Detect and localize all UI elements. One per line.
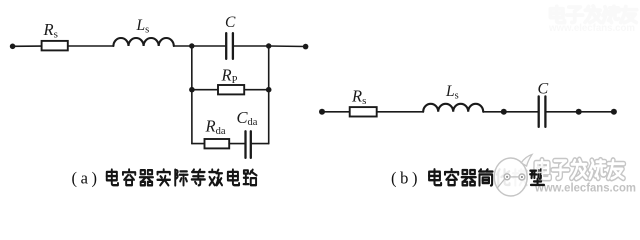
svg-text:www.elecfans.com: www.elecfans.com: [534, 181, 636, 195]
wire R_da to C_da: [229, 143, 244, 145]
junction dot node B2 (R_P row right): [266, 87, 272, 93]
svg-text:(a): (a): [72, 169, 101, 188]
wire R_s to L_s: [68, 45, 114, 47]
wire terminal to R_s: [13, 45, 42, 47]
wire terminal to R_s (b): [322, 111, 350, 113]
svg-text:Rs: Rs: [43, 20, 58, 40]
wire L_s to node A: [174, 45, 192, 47]
svg-text:C: C: [538, 80, 549, 97]
resistor R_s (a) body: [42, 41, 68, 51]
capacitor C (a) plates: [225, 33, 227, 59]
svg-text:www.elecfans.com: www.elecfans.com: [548, 23, 635, 34]
logo eye 1: [504, 174, 510, 180]
logo bubble: [521, 155, 532, 167]
wire bottom row left to R_da: [192, 143, 205, 145]
wire C to node B: [234, 45, 269, 47]
inductor L_s (b) 4 humps: [423, 104, 483, 112]
wire L_s to node C1: [483, 111, 537, 113]
node B junction dot: [266, 43, 271, 48]
capacitor C_da plates: [244, 131, 246, 158]
node dot after capacitor (b): [576, 109, 582, 115]
resistor R_P body: [218, 85, 244, 94]
svg-text:(b): (b): [391, 169, 421, 188]
resistor R_da body: [205, 139, 230, 148]
caption (a) hanzi 电容器实际等效电路: [107, 169, 257, 185]
svg-text:Ls: Ls: [136, 17, 150, 35]
logo eye 2: [519, 174, 525, 180]
svg-text:Rs: Rs: [351, 87, 366, 107]
svg-text:Ls: Ls: [445, 83, 459, 101]
logo wire lines: [498, 179, 505, 188]
wire R_s to L_s (b): [377, 111, 424, 113]
wire node B to right terminal: [269, 45, 306, 48]
terminal dot right (b): [611, 109, 617, 115]
node dot after inductor (b): [501, 109, 507, 115]
terminal dot left (b): [319, 109, 325, 115]
watermark hanzi 电子发烧友 outlined: [536, 160, 624, 179]
wire R_P row: [192, 89, 269, 91]
watermark streaks over caption: [536, 163, 546, 176]
right vertical wire node B down: [268, 46, 270, 144]
wire C to right terminal (b): [547, 111, 614, 113]
svg-text:Rda: Rda: [205, 116, 226, 136]
svg-text:RP: RP: [221, 65, 238, 85]
inductor L_s (a) 4 humps: [113, 38, 173, 46]
wire C_da to right vertical: [252, 143, 269, 145]
junction dot node A2 (R_P row left): [189, 87, 195, 93]
node A junction dot: [189, 43, 194, 48]
svg-text:C: C: [225, 14, 236, 31]
watermark top right (very faint): [548, 6, 637, 34]
left vertical wire node A down: [191, 46, 193, 144]
resistor R_s (b) body: [350, 107, 377, 116]
wire node A to capacitor C: [192, 45, 225, 47]
terminal dot right (a): [303, 44, 309, 50]
capacitor C (b) plates: [538, 96, 540, 127]
caption (b) hanzi 电容器简化模型: [429, 169, 544, 185]
svg-text:Cda: Cda: [237, 108, 258, 128]
terminal dot left (a): [10, 44, 16, 50]
